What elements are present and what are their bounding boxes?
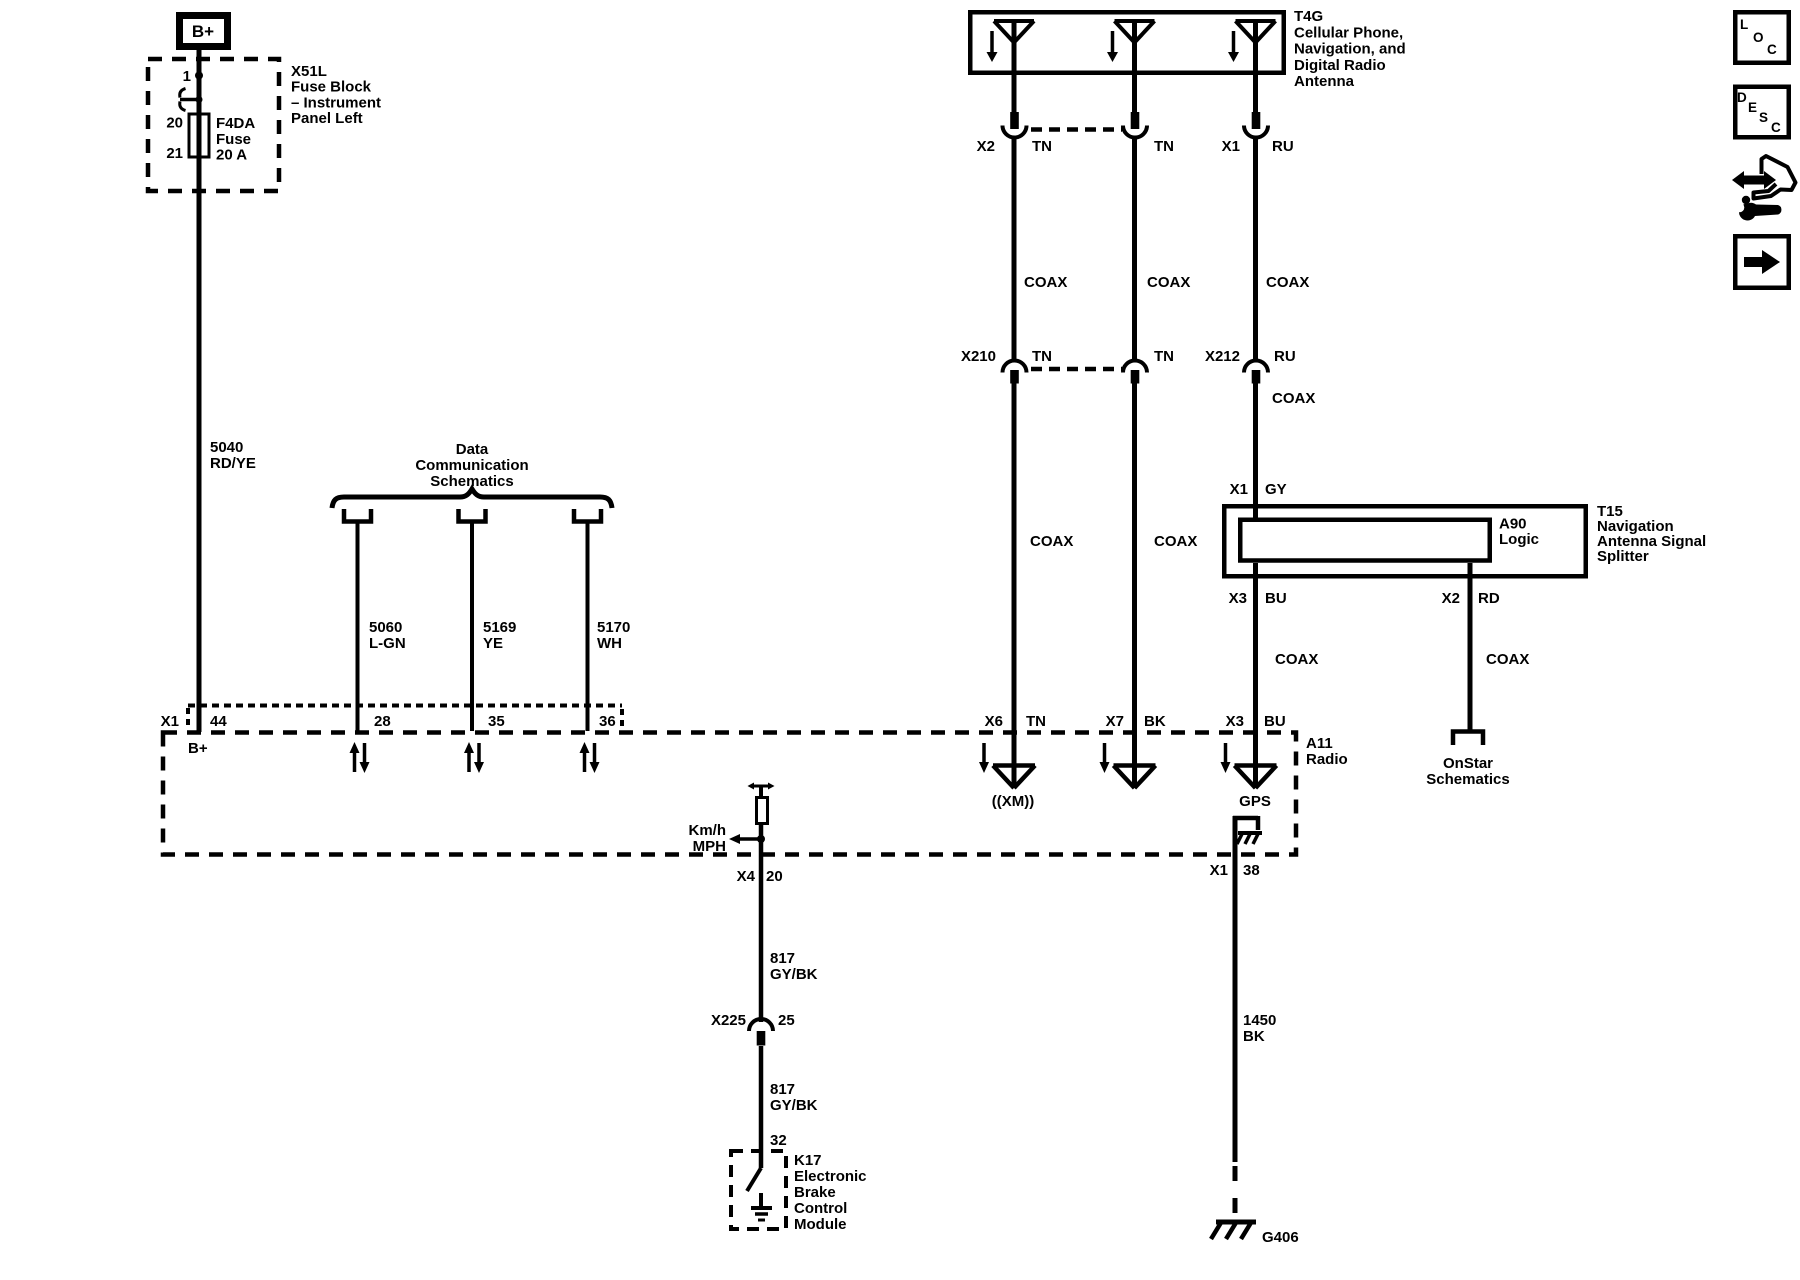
svg-text:A90: A90	[1499, 516, 1527, 533]
svg-text:B+: B+	[188, 740, 208, 757]
svg-text:Logic: Logic	[1499, 531, 1539, 548]
svg-text:36: 36	[599, 713, 616, 730]
svg-text:X6: X6	[985, 713, 1003, 730]
svg-text:Km/h: Km/h	[689, 822, 727, 839]
svg-text:COAX: COAX	[1272, 390, 1315, 407]
svg-text:Radio: Radio	[1306, 751, 1348, 768]
svg-text:COAX: COAX	[1154, 533, 1197, 550]
svg-text:TN: TN	[1154, 138, 1174, 155]
svg-text:21: 21	[166, 145, 183, 162]
svg-text:F4DA: F4DA	[216, 115, 255, 132]
svg-text:O: O	[1753, 30, 1764, 45]
svg-text:BU: BU	[1265, 590, 1287, 607]
svg-text:38: 38	[1243, 862, 1260, 879]
svg-text:1450: 1450	[1243, 1012, 1276, 1029]
svg-text:TN: TN	[1032, 138, 1052, 155]
svg-text:– Instrument: – Instrument	[291, 94, 381, 111]
svg-text:5169: 5169	[483, 619, 516, 636]
svg-text:X51L: X51L	[291, 63, 327, 80]
svg-text:E: E	[1748, 100, 1757, 115]
svg-text:X212: X212	[1205, 348, 1240, 365]
svg-text:RU: RU	[1272, 138, 1294, 155]
svg-text:X1: X1	[161, 713, 179, 730]
svg-text:COAX: COAX	[1030, 533, 1073, 550]
svg-text:COAX: COAX	[1024, 274, 1067, 291]
svg-text:BK: BK	[1243, 1028, 1265, 1045]
svg-text:44: 44	[210, 713, 227, 730]
svg-text:COAX: COAX	[1147, 274, 1190, 291]
svg-text:Cellular Phone,: Cellular Phone,	[1294, 24, 1403, 41]
svg-text:D: D	[1737, 90, 1747, 105]
svg-text:Panel Left: Panel Left	[291, 110, 363, 127]
svg-text:MPH: MPH	[693, 838, 726, 855]
svg-text:20: 20	[766, 868, 783, 885]
svg-text:Fuse: Fuse	[216, 131, 251, 148]
svg-text:T4G: T4G	[1294, 8, 1323, 25]
svg-text:S: S	[1759, 110, 1768, 125]
svg-text:817: 817	[770, 950, 795, 967]
svg-text:BK: BK	[1144, 713, 1166, 730]
svg-text:GY: GY	[1265, 481, 1287, 498]
svg-text:5170: 5170	[597, 619, 630, 636]
svg-text:X2: X2	[1442, 590, 1460, 607]
svg-text:32: 32	[770, 1132, 787, 1149]
svg-text:Schematics: Schematics	[1426, 771, 1509, 788]
svg-text:25: 25	[778, 1012, 795, 1029]
svg-text:G406: G406	[1262, 1229, 1299, 1246]
svg-text:X3: X3	[1229, 590, 1247, 607]
svg-text:X1: X1	[1222, 138, 1240, 155]
svg-text:1: 1	[183, 68, 191, 85]
svg-text:20: 20	[166, 115, 183, 132]
svg-text:Digital Radio: Digital Radio	[1294, 57, 1386, 74]
svg-text:GPS: GPS	[1239, 793, 1271, 810]
svg-text:5060: 5060	[369, 619, 402, 636]
svg-text:Navigation, and: Navigation, and	[1294, 41, 1406, 58]
svg-text:COAX: COAX	[1275, 651, 1318, 668]
svg-text:TN: TN	[1032, 348, 1052, 365]
svg-text:X4: X4	[737, 868, 756, 885]
svg-text:X3: X3	[1226, 713, 1244, 730]
svg-text:GY/BK: GY/BK	[770, 966, 818, 983]
svg-text:X1: X1	[1230, 481, 1248, 498]
svg-text:L-GN: L-GN	[369, 635, 406, 652]
svg-text:Control: Control	[794, 1200, 847, 1217]
svg-text:BU: BU	[1264, 713, 1286, 730]
svg-text:C: C	[1771, 120, 1781, 135]
svg-text:X7: X7	[1106, 713, 1124, 730]
svg-text:OnStar: OnStar	[1443, 755, 1493, 772]
svg-text:X1: X1	[1210, 862, 1228, 879]
svg-text:28: 28	[374, 713, 391, 730]
svg-text:L: L	[1740, 17, 1748, 32]
svg-text:A11: A11	[1306, 735, 1333, 752]
svg-text:C: C	[1767, 42, 1777, 57]
svg-text:Data: Data	[456, 441, 489, 458]
svg-text:Brake: Brake	[794, 1184, 836, 1201]
svg-text:X2: X2	[977, 138, 995, 155]
svg-text:RD: RD	[1478, 590, 1500, 607]
svg-text:WH: WH	[597, 635, 622, 652]
svg-text:RD/YE: RD/YE	[210, 455, 256, 472]
svg-text:K17: K17	[794, 1152, 822, 1169]
svg-text:YE: YE	[483, 635, 503, 652]
svg-text:Electronic: Electronic	[794, 1168, 867, 1185]
svg-text:Communication: Communication	[415, 457, 528, 474]
svg-text:Module: Module	[794, 1216, 847, 1233]
svg-text:5040: 5040	[210, 439, 243, 456]
svg-text:B+: B+	[192, 22, 214, 41]
svg-text:GY/BK: GY/BK	[770, 1097, 818, 1114]
svg-text:Fuse Block: Fuse Block	[291, 79, 372, 96]
svg-text:35: 35	[488, 713, 505, 730]
svg-text:X225: X225	[711, 1012, 746, 1029]
svg-text:Antenna: Antenna	[1294, 73, 1355, 90]
svg-text:((XM)): ((XM))	[992, 793, 1034, 810]
svg-text:RU: RU	[1274, 348, 1296, 365]
svg-text:X210: X210	[961, 348, 996, 365]
svg-text:TN: TN	[1154, 348, 1174, 365]
svg-text:Splitter: Splitter	[1597, 548, 1649, 565]
svg-text:20 A: 20 A	[216, 147, 247, 164]
svg-text:COAX: COAX	[1266, 274, 1309, 291]
svg-text:817: 817	[770, 1081, 795, 1098]
svg-text:COAX: COAX	[1486, 651, 1529, 668]
svg-text:TN: TN	[1026, 713, 1046, 730]
